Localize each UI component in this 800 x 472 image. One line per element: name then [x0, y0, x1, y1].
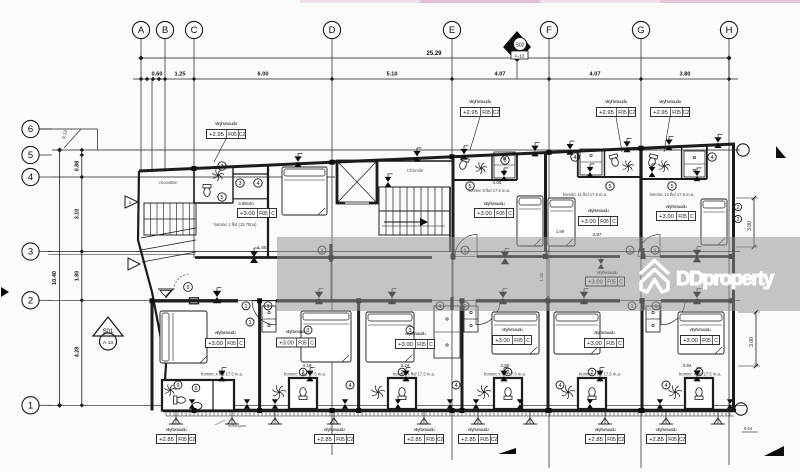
dim line segments top — [133, 78, 738, 80]
svg-text:F05: F05 — [600, 219, 609, 225]
svg-text:4: 4 — [573, 155, 576, 161]
svg-text:3: 3 — [28, 247, 33, 258]
level marker top — [665, 139, 672, 150]
svg-text:hominc 11 fkd 17.5 m.a.: hominc 11 fkd 17.5 m.a. — [563, 192, 607, 197]
bottom level flag — [714, 418, 722, 424]
grid stubs top — [140, 39, 142, 79]
level marker bottom — [517, 399, 523, 409]
svg-text:vtryhvnuudu: vtryhvnuudu — [656, 427, 677, 432]
level marker bottom — [727, 399, 733, 409]
corridor door arc dashed — [174, 274, 190, 290]
svg-text:F05: F05 — [426, 437, 435, 443]
left wedge — [1, 287, 9, 297]
level marker bottom — [189, 399, 195, 409]
labelbox b3 — [396, 340, 435, 349]
svg-text:F05: F05 — [480, 437, 489, 443]
small tri bottom — [498, 448, 516, 454]
bed b6 — [678, 312, 724, 354]
open tri 2 — [128, 258, 140, 270]
level marker bottom — [244, 399, 250, 409]
svg-text:3.00: 3.00 — [749, 337, 755, 347]
svg-text:vtryhvnuudu: vtryhvnuudu — [595, 427, 616, 432]
svg-text:+3.00: +3.00 — [477, 211, 492, 217]
svg-text:4: 4 — [28, 172, 33, 183]
svg-text:3: 3 — [306, 328, 309, 334]
bed room C — [282, 167, 327, 215]
bottom level flag — [172, 418, 180, 424]
inroom bowties bottom — [218, 371, 225, 382]
svg-text:+3.00: +3.00 — [581, 219, 596, 225]
svg-text:C2: C2 — [679, 437, 686, 443]
left dim 10.40 — [59, 150, 61, 405]
svg-text:vtryhvnuudu: vtryhvnuudu — [468, 427, 489, 432]
photo edge smudge — [300, 0, 800, 3]
svg-text:DDproperty: DDproperty — [676, 267, 775, 290]
right wall circles — [734, 203, 741, 210]
door arc bottom b6 — [661, 301, 685, 325]
svg-text:5: 5 — [670, 184, 673, 190]
svg-text:G: G — [637, 25, 644, 36]
svg-text:hominc 12 fkd 17.5 m.a.: hominc 12 fkd 17.5 m.a. — [650, 192, 695, 197]
leader lines top labels — [214, 139, 226, 162]
bath b5 — [578, 378, 606, 409]
corridor jamb E bottom — [450, 297, 453, 310]
corridor top wall right segs — [477, 255, 620, 258]
svg-text:hominc x fkd 17.5 m.a.: hominc x fkd 17.5 m.a. — [679, 372, 721, 377]
level marker in-room — [649, 167, 656, 177]
door arc bottom b2 — [252, 301, 276, 325]
svg-text:F05: F05 — [668, 437, 677, 443]
svg-text:0.64: 0.64 — [744, 426, 753, 431]
dim line 25.29 — [141, 57, 729, 59]
svg-text:vtryhvnuudu: vtryhvnuudu — [405, 331, 426, 336]
left open tri — [125, 196, 138, 208]
bed b3 — [366, 312, 414, 362]
corridor circle5 — [184, 283, 193, 292]
corridor bottom wall — [150, 299, 238, 302]
svg-text:C: C — [271, 211, 275, 217]
svg-text:D: D — [329, 25, 336, 36]
svg-text:+2.85: +2.85 — [407, 437, 422, 443]
labelboxes bottom — [206, 339, 245, 348]
svg-text:C2: C2 — [347, 437, 354, 443]
bottom wall — [163, 409, 736, 412]
bottom level flag — [526, 418, 534, 424]
svg-text:hominc 8 fkd 17.5 m.a.: hominc 8 fkd 17.5 m.a. — [468, 188, 510, 193]
svg-text:C2: C2 — [493, 110, 500, 116]
bath b2 — [289, 378, 317, 409]
svg-text:C: C — [191, 25, 198, 36]
svg-text:3.99x4n: 3.99x4n — [238, 201, 254, 206]
svg-text:1: 1 — [248, 320, 251, 326]
svg-text:C: C — [239, 341, 243, 347]
wall x268 — [267, 165, 269, 257]
svg-text:4.05: 4.05 — [493, 180, 502, 185]
top wall slanted — [139, 144, 735, 171]
level marker bottom — [342, 399, 348, 409]
svg-text:F: F — [546, 25, 552, 36]
balcony edge hatch — [165, 413, 167, 417]
svg-text:vtryhvnuudu: vtryhvnuudu — [588, 208, 609, 213]
svg-text:vtryhvnuudu: vtryhvnuudu — [594, 330, 615, 335]
svg-text:F05: F05 — [417, 342, 426, 348]
svg-text:hominc x fkd 17.5 m.a.: hominc x fkd 17.5 m.a. — [393, 372, 435, 377]
ward b6 — [646, 306, 660, 332]
svg-text:C: C — [526, 338, 530, 344]
grid bubbles top — [132, 21, 149, 38]
svg-text:hominc 1 fkd (15.75nu): hominc 1 fkd (15.75nu) — [214, 222, 257, 227]
corridor jamb G bottom — [641, 298, 644, 310]
bath fixtures G left — [609, 154, 620, 168]
bed b1 — [160, 311, 207, 363]
door arc top GH — [638, 235, 660, 257]
svg-text:2: 2 — [736, 217, 739, 223]
level marker top — [714, 137, 721, 148]
svg-text:F05: F05 — [702, 338, 711, 344]
grid C extension — [193, 168, 195, 258]
corridor open tri — [158, 289, 173, 298]
svg-text:6: 6 — [503, 158, 506, 164]
svg-text:E: E — [449, 25, 455, 36]
svg-text:vtryhvnuudu: vtryhvnuudu — [469, 99, 491, 105]
svg-text:vtryhvnuudu: vtryhvnuudu — [286, 329, 307, 334]
svg-text:3: 3 — [220, 164, 223, 170]
labelbox b6 — [681, 336, 720, 345]
svg-text:F05: F05 — [606, 341, 615, 347]
bottom level flag — [420, 418, 428, 424]
label room C — [238, 209, 277, 218]
column nubs corridor — [329, 255, 334, 260]
svg-text:3.94: 3.94 — [683, 363, 692, 368]
svg-text:+2.95: +2.95 — [209, 132, 224, 138]
svg-text:1.99: 1.99 — [556, 229, 565, 234]
ward b4 — [464, 306, 478, 332]
landing lines — [141, 228, 196, 238]
svg-text:S02: S02 — [516, 43, 525, 49]
corridor jamb B — [329, 244, 332, 262]
right wedge bottom — [764, 446, 784, 456]
bottom circled — [246, 318, 254, 326]
grid stubs left — [39, 128, 52, 130]
svg-text:4: 4 — [348, 383, 351, 389]
svg-text:A: A — [138, 25, 145, 36]
bath fixtures G right — [647, 154, 658, 168]
svg-text:F05: F05 — [607, 437, 616, 443]
svg-text:vtryhvnuudu: vtryhvnuudu — [324, 427, 345, 432]
svg-text:A-13: A-13 — [103, 340, 113, 346]
wall x641 pair — [639, 148, 642, 251]
marker S02 — [503, 31, 531, 62]
svg-text:+2.85: +2.85 — [317, 437, 332, 443]
svg-text:+3.00: +3.00 — [279, 341, 294, 347]
svg-text:C: C — [714, 338, 718, 344]
svg-text:F05: F05 — [672, 110, 681, 116]
level marker top — [531, 146, 538, 157]
svg-text:vtryhvnuudu: vtryhvnuudu — [666, 204, 687, 209]
door arc top EF — [455, 235, 477, 257]
svg-text:5: 5 — [608, 184, 611, 190]
level marker top — [566, 144, 573, 155]
svg-text:0.60: 0.60 — [152, 72, 163, 78]
svg-text:choowBin: choowBin — [158, 180, 178, 185]
svg-text:ChSmile: ChSmile — [407, 168, 424, 173]
svg-text:5: 5 — [220, 195, 223, 201]
svg-text:F05: F05 — [336, 437, 345, 443]
svg-text:3.80: 3.80 — [680, 72, 691, 78]
door arc bottom b4 — [476, 301, 500, 325]
stair top wall — [334, 160, 453, 162]
bath fixtures E — [458, 157, 470, 171]
svg-text:4: 4 — [454, 383, 457, 389]
svg-text:+3.00: +3.00 — [240, 211, 255, 217]
corridor jamb G top — [641, 248, 644, 258]
ward b2 — [262, 306, 276, 332]
right dim 3.00 bottom — [755, 312, 757, 366]
wall x545 — [544, 153, 547, 252]
circle col bottomright — [735, 403, 747, 415]
svg-text:1: 1 — [28, 401, 33, 412]
svg-text:6: 6 — [28, 124, 33, 135]
svg-text:F05: F05 — [678, 214, 687, 220]
level marker corridor — [598, 259, 604, 269]
bottom level flag — [330, 418, 338, 424]
grid horizontals — [52, 149, 740, 151]
column nubs bottom wall — [192, 408, 197, 413]
svg-text:vtryhvnuudu: vtryhvnuudu — [659, 99, 681, 105]
bed b4 — [492, 312, 539, 354]
door circles corridor top — [318, 246, 326, 254]
svg-text:C: C — [690, 214, 694, 220]
svg-text:4.07: 4.07 — [590, 72, 601, 78]
svg-text:5.10: 5.10 — [387, 72, 398, 78]
svg-text:vtryhvnuudu: vtryhvnuudu — [215, 330, 236, 335]
corridor jamb E top — [451, 248, 454, 260]
bed b5 — [554, 312, 600, 354]
bottom level flag — [662, 418, 670, 424]
bath walls top row — [453, 179, 517, 181]
level marker in-room — [694, 171, 701, 181]
svg-text:H: H — [726, 25, 733, 36]
svg-text:4.07: 4.07 — [495, 72, 506, 78]
bath b3 — [388, 378, 416, 409]
nub 194 bottomwall — [190, 298, 199, 304]
right wedge top — [776, 146, 786, 158]
svg-text:vtryhvnuudu: vtryhvnuudu — [215, 121, 237, 127]
bath topleft walls — [193, 168, 195, 203]
svg-text:F05: F05 — [618, 110, 627, 116]
bath b1 — [162, 380, 234, 411]
stairs left — [144, 203, 196, 235]
left dim segments — [81, 148, 83, 405]
svg-text:C: C — [429, 342, 433, 348]
corridor bowtie left — [213, 291, 221, 304]
level marker corridor — [501, 252, 509, 265]
svg-text:6: 6 — [194, 386, 197, 392]
left wall slanted — [138, 171, 166, 410]
svg-text:9: 9 — [176, 383, 179, 389]
svg-text:4: 4 — [558, 383, 561, 389]
svg-text:5: 5 — [28, 150, 33, 161]
svg-text:F05: F05 — [228, 132, 237, 138]
wall x453 — [452, 157, 455, 252]
grid3 double line — [48, 254, 195, 256]
svg-text:3.10: 3.10 — [75, 209, 81, 220]
grid line 6 jog — [39, 128, 97, 130]
level marker bottom — [587, 399, 593, 409]
bed room FG — [548, 198, 575, 246]
level marker in-room — [385, 177, 392, 187]
level marker corridor — [693, 250, 701, 263]
column nubs top wall — [192, 166, 197, 171]
bath topleft fixtures — [203, 185, 211, 197]
svg-text:4: 4 — [256, 181, 259, 187]
bottom row dividers — [151, 300, 154, 410]
bottom level flag — [601, 418, 609, 424]
svg-text:+3.00: +3.00 — [683, 338, 698, 344]
svg-text:vtryhvnuudu: vtryhvnuudu — [484, 201, 505, 206]
right dim 3.00 top — [753, 198, 755, 247]
svg-text:B: B — [162, 25, 168, 36]
wardrobe F — [580, 149, 602, 175]
svg-text:C2: C2 — [491, 437, 498, 443]
wardrobe H — [684, 151, 705, 177]
svg-text:3.00: 3.00 — [747, 221, 753, 231]
svg-text:+3.00: +3.00 — [398, 342, 413, 348]
corridor top wall left — [195, 256, 432, 259]
door circles corridor bottom — [242, 302, 250, 310]
bottom level flag — [474, 418, 482, 424]
svg-text:+2.95: +2.95 — [463, 110, 478, 116]
level marker bottom — [657, 399, 663, 409]
level marker bottom — [447, 399, 453, 409]
svg-text:+2.85: +2.85 — [588, 437, 603, 443]
svg-text:C: C — [508, 211, 512, 217]
svg-text:F05: F05 — [482, 110, 491, 116]
svg-text:F05: F05 — [514, 338, 523, 344]
svg-text:3: 3 — [238, 181, 241, 187]
bed room EF — [517, 196, 543, 246]
corridor bowties2 — [315, 292, 323, 305]
level marker bottom — [272, 399, 278, 409]
svg-text:5: 5 — [186, 285, 189, 291]
svg-text:6.00: 6.00 — [258, 72, 269, 78]
svg-text:+2.85: +2.85 — [649, 437, 664, 443]
svg-text:vtryhvnuudu: vtryhvnuudu — [414, 427, 435, 432]
svg-text:F05: F05 — [298, 341, 307, 347]
DDproperty logo icon — [641, 261, 668, 293]
right wall — [732, 144, 735, 410]
svg-text:C: C — [310, 341, 314, 347]
svg-text:+3.00: +3.00 — [659, 214, 674, 220]
wall x450 — [449, 187, 451, 252]
svg-text:1: 1 — [244, 304, 247, 310]
bath b6 — [685, 378, 713, 409]
bed room GH — [701, 199, 727, 245]
svg-text:2: 2 — [736, 205, 739, 211]
svg-text:C2: C2 — [189, 437, 196, 443]
svg-text:+3.00: +3.00 — [208, 341, 223, 347]
corridor dim 1.52 — [546, 252, 548, 298]
labelbox b4 — [493, 336, 532, 345]
bottom level flag — [271, 418, 279, 424]
svg-text:vtryhvnuudu: vtryhvnuudu — [605, 99, 627, 105]
level marker bottom — [395, 399, 401, 409]
svg-text:+2.95: +2.95 — [653, 110, 668, 116]
ward b3 — [434, 306, 460, 358]
level marker bottom — [473, 399, 479, 409]
svg-text:+2.85: +2.85 — [461, 437, 476, 443]
svg-text:hominc x fkd 17.5 m.a.: hominc x fkd 17.5 m.a. — [284, 372, 326, 377]
svg-text:C2: C2 — [618, 437, 625, 443]
watermark band — [277, 237, 800, 311]
svg-text:vtryhvnuudu: vtryhvnuudu — [690, 327, 711, 332]
svg-text:1.80: 1.80 — [75, 271, 81, 282]
svg-text:+2.85: +2.85 — [159, 437, 174, 443]
bath b4 — [494, 378, 522, 409]
svg-text:C: C — [618, 341, 622, 347]
svg-text:vtryhvnuudu: vtryhvnuudu — [166, 427, 187, 432]
svg-text:nnfiangatu: nnfiangatu — [228, 424, 246, 428]
svg-text:C2: C2 — [239, 132, 246, 138]
svg-text:vtryhvnuudu: vtryhvnuudu — [502, 327, 523, 332]
svg-text:F05: F05 — [496, 211, 505, 217]
svg-text:F05: F05 — [178, 437, 187, 443]
marker S01 — [93, 317, 123, 336]
bed b2 — [301, 311, 351, 362]
circle col topright — [737, 144, 749, 156]
svg-text:C: C — [612, 219, 616, 225]
svg-text:F05: F05 — [227, 341, 236, 347]
labelbox b5 — [585, 339, 624, 348]
level marker top — [413, 151, 420, 162]
elevator shaft — [337, 161, 377, 203]
level marker in-room — [587, 167, 594, 177]
svg-text:F05: F05 — [259, 211, 268, 217]
svg-text:C2: C2 — [683, 110, 690, 116]
svg-text:1.25: 1.25 — [175, 72, 186, 78]
grid verticals — [140, 79, 142, 171]
svg-text:C2: C2 — [437, 437, 444, 443]
svg-text:10.40: 10.40 — [52, 271, 58, 285]
svg-text:+2.95: +2.95 — [599, 110, 614, 116]
svg-text:2: 2 — [28, 296, 33, 307]
svg-text:4: 4 — [664, 383, 667, 389]
stairs center — [379, 187, 450, 235]
svg-text:C2: C2 — [629, 110, 636, 116]
svg-text:4.28: 4.28 — [75, 347, 81, 358]
bottom level flag — [228, 418, 236, 424]
level marker top — [460, 149, 467, 160]
labelbox b2 — [277, 338, 316, 347]
level marker top — [623, 141, 630, 152]
svg-text:+3.00: +3.00 — [587, 341, 602, 347]
svg-text:+3.00: +3.00 — [495, 338, 510, 344]
svg-text:25.29: 25.29 — [426, 51, 442, 57]
grid bubbles left — [22, 120, 39, 137]
svg-text:0.88: 0.88 — [75, 161, 81, 172]
svg-text:3.97: 3.97 — [593, 232, 602, 237]
svg-text:4: 4 — [710, 155, 713, 161]
svg-text:1.65: 1.65 — [258, 245, 267, 250]
level marker in-room — [501, 171, 508, 181]
svg-text:1: 1 — [266, 304, 269, 310]
level marker top — [294, 156, 301, 167]
closet E — [494, 152, 515, 178]
svg-text:A-12: A-12 — [514, 54, 524, 60]
